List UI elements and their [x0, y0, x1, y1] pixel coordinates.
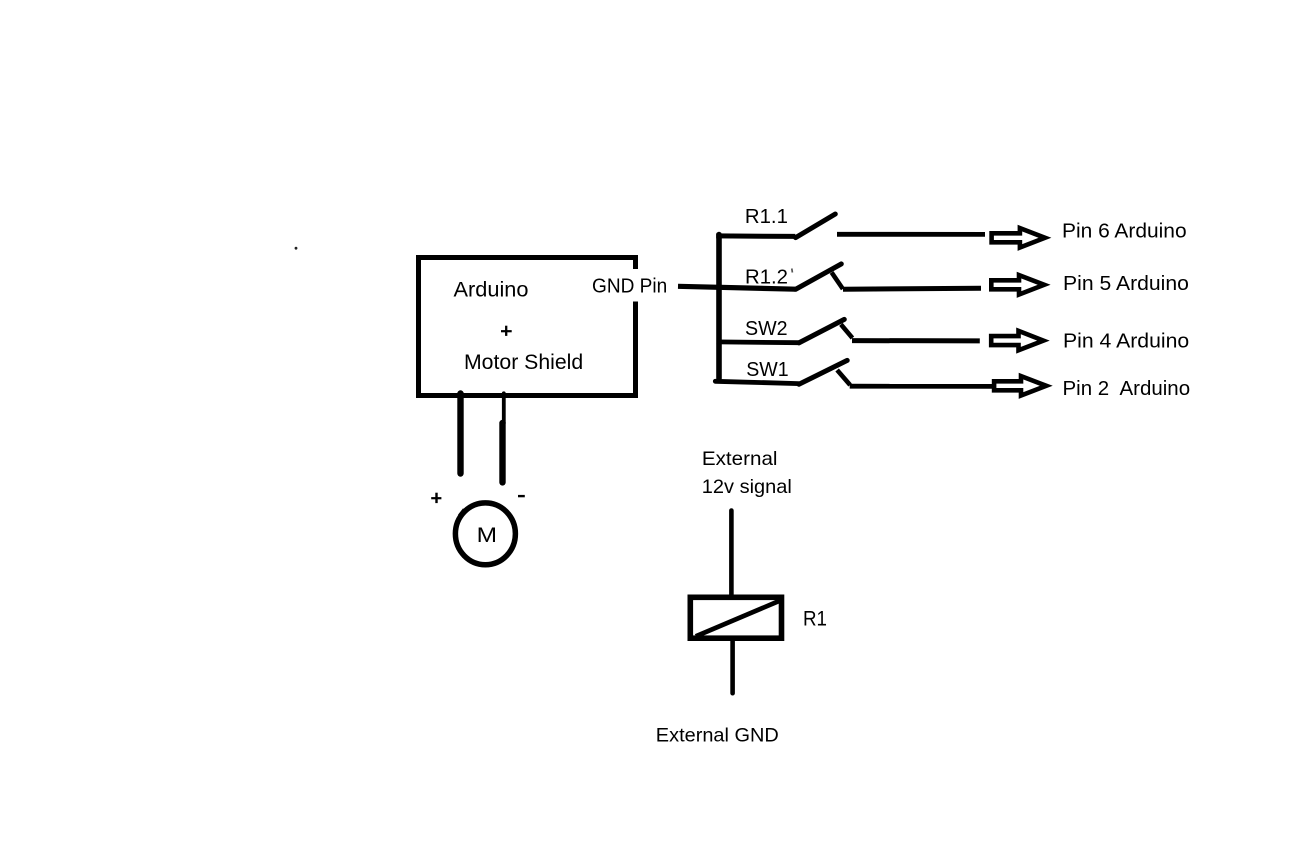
switch SW1 contact arm	[837, 370, 850, 385]
wire 12v signal to relay coil	[729, 511, 734, 598]
label plus inside box	[501, 326, 512, 336]
wire bus to switch SW1	[715, 381, 798, 383]
svg-text:Pin 2 Arduino: Pin 2 Arduino	[1063, 378, 1191, 400]
wire switch SW1 to arrow	[850, 384, 994, 389]
Arduino + Motor Shield box U1	[419, 258, 636, 396]
switch R1.1 blade	[796, 214, 836, 238]
wire switch R1.2 to arrow	[843, 288, 981, 289]
wire vertical bus	[716, 235, 722, 379]
wire GND pin to bus and R1.2 switch	[678, 286, 795, 289]
svg-text:R1: R1	[803, 608, 827, 631]
arrow to Pin 2	[994, 376, 1046, 395]
switch R1.2 blade	[796, 264, 842, 289]
arrow to Pin 5	[991, 275, 1044, 294]
label plus motor	[431, 493, 441, 503]
relay R1 coil box	[690, 597, 781, 638]
svg-text:M: M	[477, 523, 497, 547]
arrow to Pin 4	[991, 331, 1043, 350]
svg-text:R1.1: R1.1	[745, 206, 788, 228]
wire motor negative lead	[503, 393, 504, 482]
switch SW2 contact arm	[841, 324, 853, 338]
switch SW1 blade	[799, 360, 847, 384]
wire bus to switch SW2	[717, 339, 799, 345]
svg-text:External: External	[702, 448, 778, 470]
relay R1 coil diagonal	[696, 601, 780, 637]
svg-text:Pin 6 Arduino: Pin 6 Arduino	[1062, 220, 1187, 242]
svg-text:Pin 5 Arduino: Pin 5 Arduino	[1063, 273, 1189, 295]
wire switch SW2 to arrow	[852, 338, 980, 343]
svg-text:Motor Shield: Motor Shield	[464, 350, 583, 374]
svg-text:SW2: SW2	[745, 318, 788, 340]
wire motor positive lead	[457, 394, 463, 474]
svg-text:External GND: External GND	[656, 725, 779, 747]
label External 12v signal	[702, 448, 792, 498]
wire relay coil to external GND	[730, 640, 735, 693]
arrow to Pin 6	[992, 228, 1045, 247]
wire bus to switch R1.1	[716, 233, 795, 239]
motor M1 circle	[455, 503, 515, 565]
stray mark	[295, 247, 298, 250]
switch SW2 blade	[799, 319, 844, 343]
svg-text:GND Pin: GND Pin	[592, 274, 667, 297]
stray apostrophe mark	[791, 269, 794, 273]
svg-text:12v signal: 12v signal	[702, 476, 792, 498]
svg-text:Arduino: Arduino	[454, 279, 529, 302]
svg-text:Pin 4 Arduino: Pin 4 Arduino	[1063, 331, 1189, 353]
switch R1.2 contact arm	[832, 272, 843, 289]
svg-text:SW1: SW1	[746, 359, 788, 381]
label minus motor	[518, 495, 525, 497]
svg-text:R1.2: R1.2	[745, 266, 788, 288]
wire switch R1.1 to arrow	[837, 232, 985, 237]
